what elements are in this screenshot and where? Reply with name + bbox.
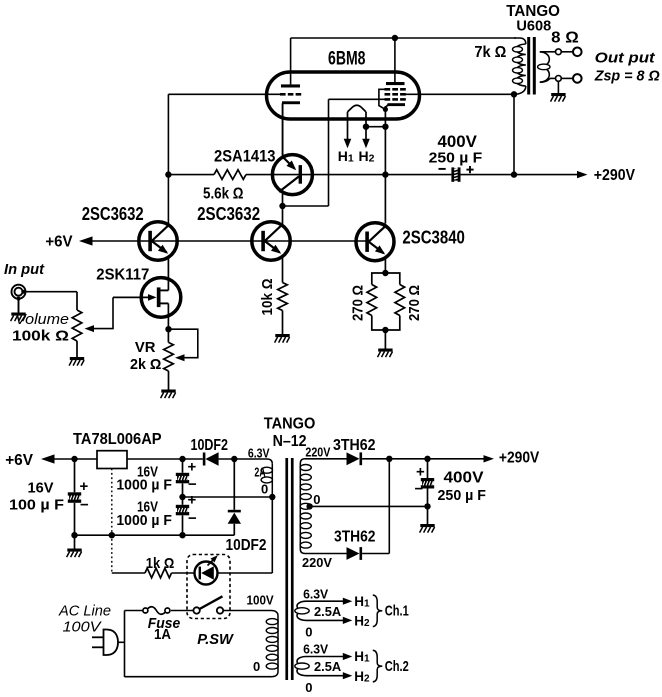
svg-text:0: 0	[261, 481, 268, 496]
svg-text:2SA1413: 2SA1413	[214, 147, 276, 166]
svg-text:6.3V: 6.3V	[303, 586, 328, 601]
svg-text:220V: 220V	[305, 445, 330, 460]
svg-text:TA78L006AP: TA78L006AP	[73, 431, 162, 448]
svg-text:+290V: +290V	[594, 167, 635, 184]
svg-text:0: 0	[313, 492, 320, 507]
svg-text:1A: 1A	[154, 626, 171, 643]
svg-text:400V: 400V	[444, 470, 484, 487]
svg-text:2SK117: 2SK117	[96, 266, 149, 283]
svg-text:250 µ F: 250 µ F	[429, 149, 483, 166]
svg-text:10DF2: 10DF2	[226, 537, 267, 554]
svg-text:Ch.1: Ch.1	[385, 603, 409, 620]
svg-text:16V: 16V	[28, 479, 54, 496]
svg-text:3TH62: 3TH62	[333, 437, 376, 454]
svg-text:100 µ F: 100 µ F	[9, 497, 64, 514]
svg-text:1000 µ F: 1000 µ F	[116, 512, 171, 529]
svg-text:+6V: +6V	[45, 234, 73, 251]
svg-text:+: +	[80, 478, 89, 495]
svg-text:1000 µ F: 1000 µ F	[116, 476, 171, 493]
svg-text:0: 0	[305, 625, 312, 640]
svg-text:VR: VR	[135, 339, 156, 356]
svg-text:+: +	[188, 491, 197, 508]
svg-text:Ch.2: Ch.2	[385, 658, 409, 675]
svg-text:U608: U608	[516, 18, 551, 35]
svg-text:N–12: N–12	[273, 433, 307, 450]
svg-text:0: 0	[305, 680, 312, 695]
svg-text:Zsp = 8 Ω: Zsp = 8 Ω	[594, 68, 660, 85]
svg-text:6BM8: 6BM8	[328, 49, 366, 70]
svg-text:7k Ω: 7k Ω	[474, 44, 506, 61]
svg-text:2SC3840: 2SC3840	[402, 227, 465, 247]
svg-text:+290V: +290V	[499, 450, 540, 467]
svg-text:270 Ω: 270 Ω	[350, 285, 367, 321]
svg-text:8 Ω: 8 Ω	[551, 30, 579, 47]
svg-text:2SC3632: 2SC3632	[197, 204, 260, 224]
svg-text:0: 0	[253, 659, 260, 674]
svg-text:10k Ω: 10k Ω	[259, 279, 276, 316]
svg-text:3TH62: 3TH62	[334, 529, 376, 546]
svg-text:2.5A: 2.5A	[314, 604, 342, 619]
svg-text:100V: 100V	[63, 619, 103, 636]
svg-text:100V: 100V	[247, 593, 274, 608]
svg-text:+: +	[188, 459, 197, 476]
svg-text:2SC3632: 2SC3632	[82, 204, 144, 224]
svg-text:+6V: +6V	[5, 452, 33, 469]
svg-text:6.3V: 6.3V	[248, 445, 270, 460]
svg-text:2.5A: 2.5A	[314, 659, 342, 674]
svg-text:−: −	[80, 497, 89, 514]
svg-text:−: −	[415, 481, 424, 498]
svg-text:Out put: Out put	[595, 49, 656, 66]
svg-text:−: −	[188, 510, 197, 527]
svg-text:P.SW: P.SW	[197, 631, 234, 648]
svg-text:+: +	[416, 464, 425, 481]
svg-text:270 Ω: 270 Ω	[406, 285, 423, 321]
svg-text:AC Line: AC Line	[58, 603, 111, 620]
svg-text:1k Ω: 1k Ω	[146, 555, 175, 572]
svg-text:In put: In put	[4, 261, 45, 278]
svg-text:250 µ F: 250 µ F	[438, 487, 487, 504]
svg-text:TANGO: TANGO	[264, 416, 316, 433]
svg-text:2k Ω: 2k Ω	[130, 356, 161, 373]
svg-text:5.6k Ω: 5.6k Ω	[203, 186, 244, 203]
svg-text:400V: 400V	[438, 132, 478, 151]
svg-text:2A: 2A	[254, 464, 266, 479]
svg-text:Volume: Volume	[15, 312, 69, 328]
svg-text:10DF2: 10DF2	[191, 437, 229, 454]
svg-text:6.3V: 6.3V	[303, 642, 328, 657]
svg-text:100k Ω: 100k Ω	[12, 328, 69, 345]
svg-text:220V: 220V	[302, 555, 332, 570]
